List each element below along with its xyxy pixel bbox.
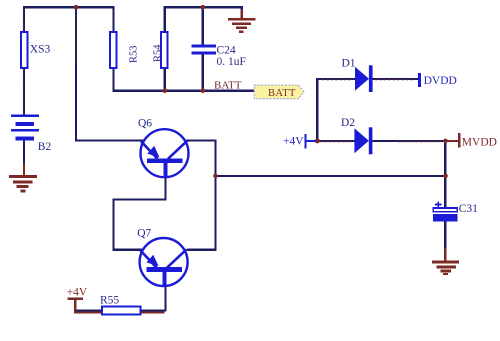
svg-text:C31: C31 (459, 203, 478, 215)
svg-text:C24: C24 (217, 45, 236, 57)
svg-text:DVDD: DVDD (424, 75, 457, 87)
svg-text:BATT: BATT (268, 88, 296, 99)
svg-text:+4V: +4V (283, 136, 304, 148)
svg-text:B2: B2 (38, 141, 52, 153)
svg-text:0. 1uF: 0. 1uF (217, 56, 246, 68)
svg-text:XS3: XS3 (30, 44, 51, 56)
svg-text:D2: D2 (341, 117, 355, 129)
svg-text:D1: D1 (342, 58, 356, 70)
svg-text:R55: R55 (100, 295, 119, 307)
svg-text:BATT: BATT (214, 80, 242, 92)
svg-text:Q6: Q6 (138, 118, 152, 130)
svg-text:R54: R54 (153, 44, 164, 62)
svg-text:Q7: Q7 (137, 228, 151, 240)
svg-text:+4V: +4V (67, 287, 88, 299)
svg-text:MVDD: MVDD (462, 136, 497, 148)
svg-text:R53: R53 (129, 45, 140, 63)
